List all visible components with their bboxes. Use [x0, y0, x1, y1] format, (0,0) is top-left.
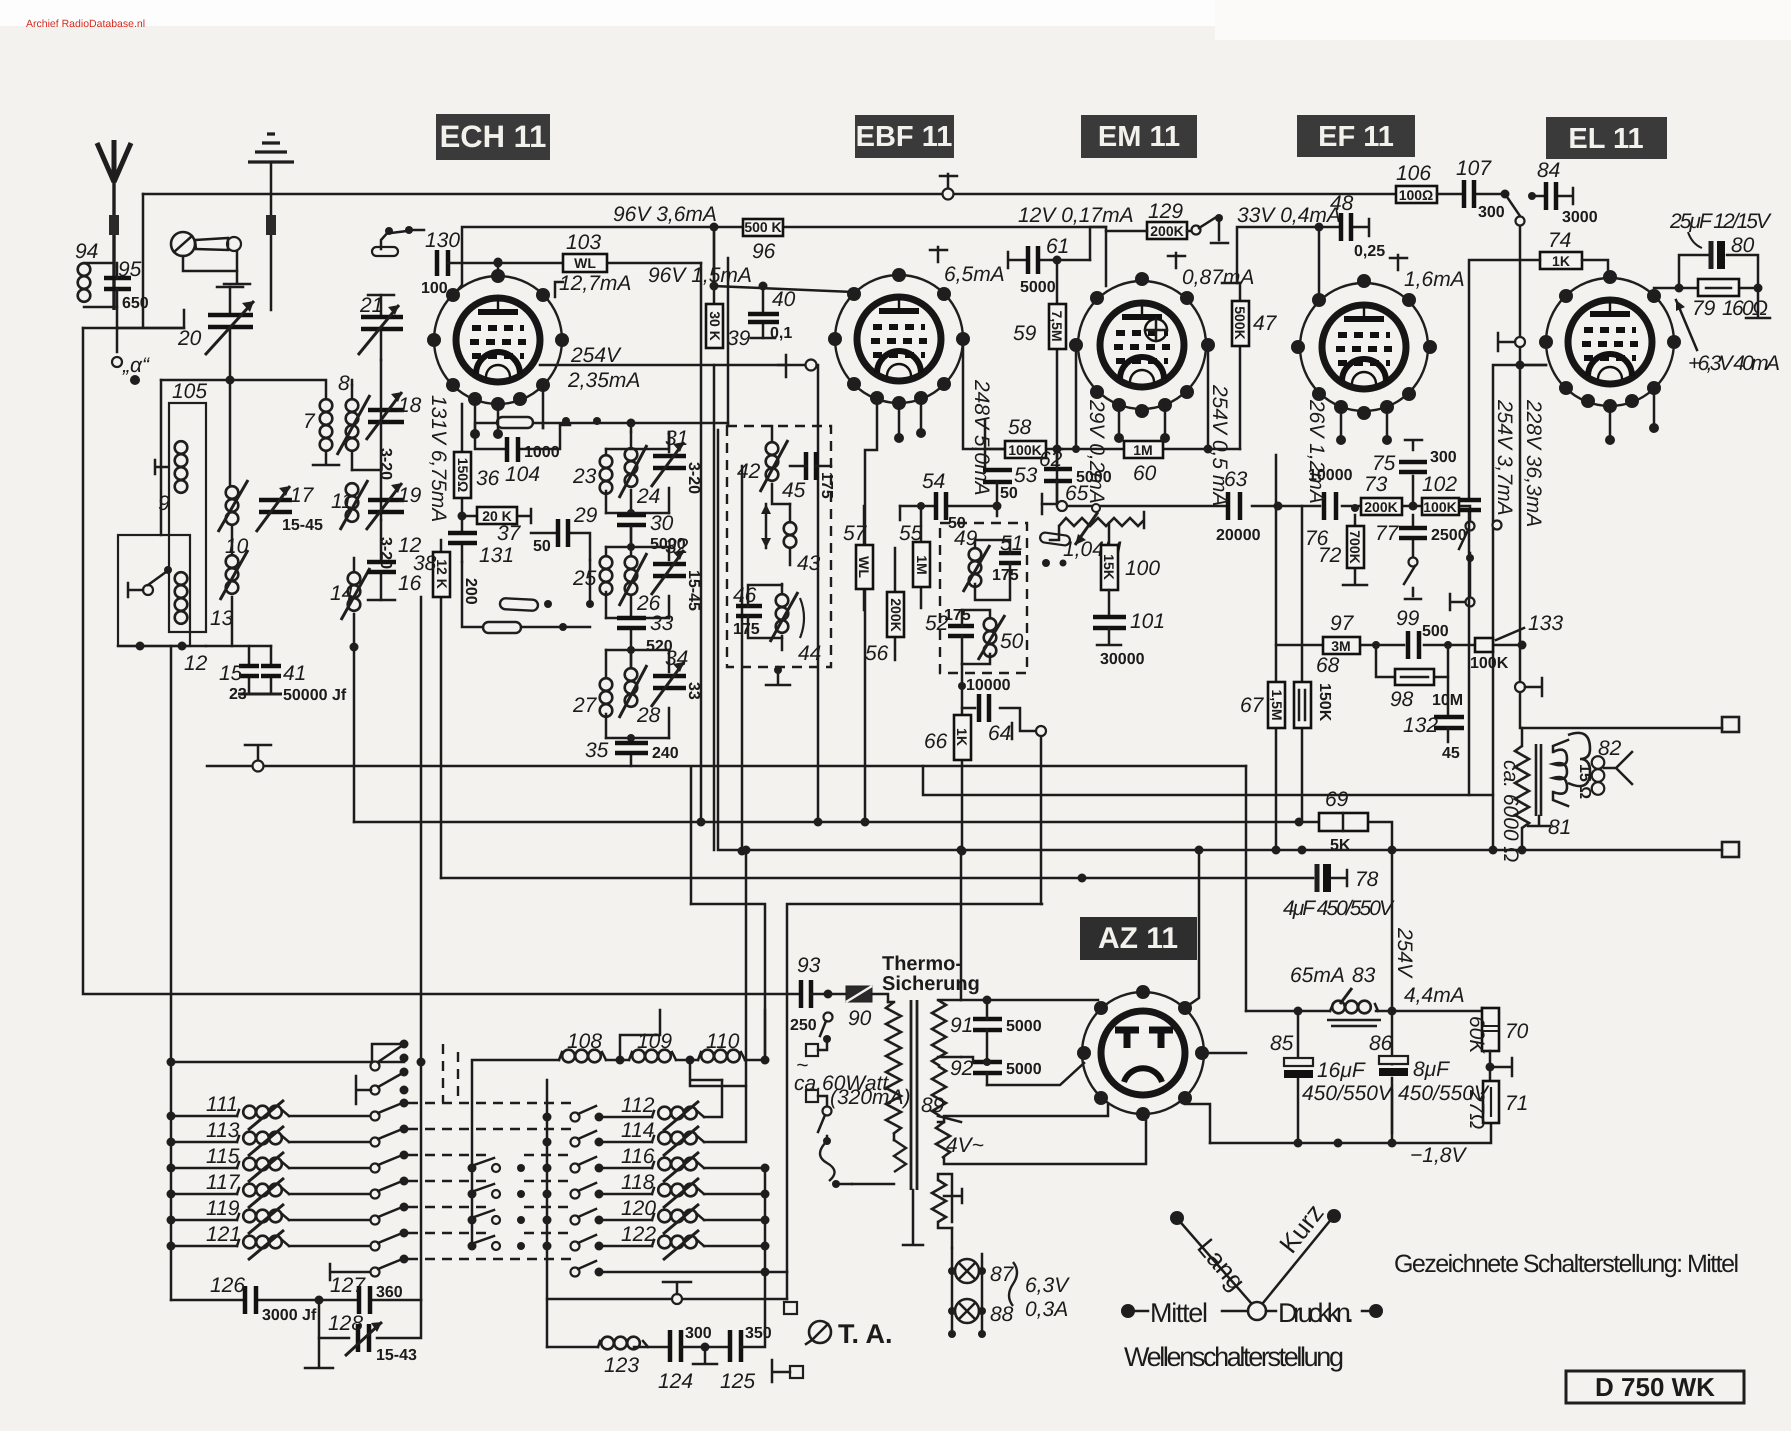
coil 8 variable — [337, 372, 370, 470]
row 119 — [171, 1219, 237, 1222]
wire bus y822 — [354, 822, 1392, 850]
svg-text:100: 100 — [1125, 557, 1160, 580]
selector box left — [118, 535, 190, 646]
resistor 73 200K — [1361, 473, 1418, 515]
lamp 88 — [955, 1299, 979, 1323]
svg-text:36: 36 — [476, 467, 500, 490]
wire vertical x1199 AZ11 anode — [1186, 850, 1199, 1007]
wire vertical x1302 150K — [1301, 506, 1304, 822]
coil 13 variable — [210, 542, 248, 646]
tube EBF11 — [828, 247, 1005, 443]
svg-text:3000: 3000 — [1562, 209, 1598, 226]
svg-text:1,5M: 1,5M — [1269, 689, 1285, 720]
svg-text:133: 133 — [1528, 612, 1563, 635]
variable cap 17 — [256, 484, 323, 534]
svg-text:175: 175 — [992, 567, 1019, 584]
svg-text:128: 128 — [328, 1312, 363, 1335]
resistor 69 5K on bus — [1319, 788, 1368, 854]
svg-text:240: 240 — [652, 745, 679, 762]
svg-text:80: 80 — [1731, 234, 1755, 257]
cap 101 — [1093, 610, 1165, 668]
svg-text:26V 1,2mA: 26V 1,2mA — [1305, 399, 1328, 504]
svg-text:129: 129 — [1148, 200, 1183, 223]
coil 50 variable — [984, 618, 997, 631]
svg-text:116: 116 — [621, 1145, 655, 1168]
cap 52 — [948, 626, 974, 636]
svg-text:66: 66 — [924, 730, 948, 753]
coil 10 — [218, 480, 249, 558]
svg-text:450/550V: 450/550V — [1398, 1082, 1490, 1105]
svg-text:500K: 500K — [1232, 306, 1248, 339]
svg-text:0,25: 0,25 — [1354, 243, 1385, 260]
variable cap 19 — [366, 483, 422, 569]
wire AF line y506 — [1062, 506, 1470, 521]
svg-text:5000: 5000 — [1020, 279, 1056, 296]
svg-text:94: 94 — [75, 240, 98, 263]
svg-text:96: 96 — [752, 240, 776, 263]
svg-text:5000: 5000 — [1006, 1018, 1042, 1035]
osc coil 26 variable — [619, 547, 661, 615]
svg-text:37: 37 — [497, 522, 522, 545]
potentiometer 65 — [1042, 482, 1144, 561]
cap 46 — [736, 606, 762, 616]
wire vertical x865 EBF g — [865, 403, 877, 822]
svg-text:114: 114 — [621, 1119, 654, 1142]
svg-text:117: 117 — [206, 1171, 241, 1194]
svg-text:12,7mA: 12,7mA — [559, 272, 631, 295]
svg-text:254V: 254V — [1393, 927, 1416, 979]
heater winding 4V~ — [936, 1105, 1146, 1164]
capacitor 95 — [104, 258, 149, 312]
wire AZ11 cathode to choke — [1206, 766, 1246, 1053]
svg-text:10000: 10000 — [966, 677, 1011, 694]
svg-text:33V 0,4mA: 33V 0,4mA — [1237, 204, 1341, 227]
wire long verticals IF buses — [713, 227, 716, 850]
label 33V 0,4mA + cap 48 — [1237, 192, 1385, 293]
coupling arrow — [765, 504, 768, 548]
caps 126/127/128 row — [171, 1274, 421, 1368]
svg-text:12 K: 12 K — [434, 559, 450, 589]
resistor 39 30K vertical — [706, 304, 751, 350]
wire 12V line — [1090, 227, 1106, 260]
svg-text:Sicherung: Sicherung — [882, 973, 980, 995]
svg-text:7,5M: 7,5M — [1049, 310, 1065, 341]
row 115 — [171, 1167, 237, 1170]
svg-text:12: 12 — [184, 652, 208, 675]
resistor 98 10M loop — [1372, 641, 1463, 715]
svg-text:700K: 700K — [1347, 530, 1363, 563]
svg-text:92: 92 — [950, 1057, 974, 1080]
svg-text:175: 175 — [818, 472, 835, 499]
svg-text:79: 79 — [1692, 297, 1716, 320]
svg-text:71: 71 — [1505, 1092, 1528, 1115]
svg-text:23: 23 — [572, 465, 597, 488]
svg-text:WL: WL — [856, 556, 872, 578]
dashed linkage verticals — [443, 1044, 458, 1103]
vert line from cap20 down — [229, 380, 232, 486]
resistor 37 20K — [458, 507, 532, 545]
ground stub below — [766, 667, 790, 685]
cap 33 — [606, 596, 674, 655]
svg-text:131V 6,75mA: 131V 6,75mA — [427, 395, 450, 522]
svg-text:113: 113 — [206, 1119, 240, 1142]
svg-text:360: 360 — [376, 1284, 403, 1301]
svg-text:30: 30 — [650, 512, 674, 535]
svg-text:160Ω: 160Ω — [1722, 297, 1768, 320]
coils 108/109/110 — [472, 1010, 770, 1086]
svg-text:118: 118 — [621, 1171, 655, 1194]
svg-text:+6,3V 40mA: +6,3V 40mA — [1688, 352, 1780, 375]
svg-text:105: 105 — [172, 380, 207, 403]
transformer 81 core — [1528, 744, 1571, 839]
svg-text:T. A.: T. A. — [838, 1319, 893, 1349]
wire left long vertical x144 — [83, 194, 184, 328]
cap 35 — [585, 734, 679, 766]
svg-text:25: 25 — [572, 567, 597, 590]
row 113 — [171, 1141, 237, 1144]
wire left bank vertical x171 — [170, 646, 173, 1300]
svg-text:„α“: „α“ — [122, 354, 150, 377]
svg-text:EF 11: EF 11 — [1318, 121, 1394, 153]
terminal on top bus — [940, 174, 957, 189]
mid switch bank — [468, 1062, 526, 1251]
mains switch — [794, 1013, 911, 1189]
cap 62 — [1039, 448, 1112, 506]
wire vertical x818 (2,35mA) — [817, 365, 820, 822]
wire AVC bus y645 — [1276, 644, 1522, 647]
osc coil 28 variable — [619, 650, 661, 727]
svg-text:124: 124 — [658, 1370, 693, 1393]
svg-text:28: 28 — [636, 704, 661, 727]
cap 76 — [1305, 467, 1353, 550]
svg-text:100: 100 — [421, 280, 448, 297]
svg-text:11: 11 — [331, 490, 353, 513]
svg-text:21: 21 — [359, 294, 383, 317]
svg-text:46: 46 — [733, 584, 757, 607]
svg-text:45: 45 — [782, 479, 806, 502]
wire top grid bus y194 — [143, 193, 1396, 196]
cap 131 — [448, 516, 514, 605]
svg-text:43: 43 — [797, 552, 821, 575]
svg-text:254V: 254V — [570, 344, 622, 367]
svg-text:96V 1,5mA: 96V 1,5mA — [648, 264, 752, 287]
svg-text:23: 23 — [229, 686, 247, 703]
svg-text:112: 112 — [621, 1094, 655, 1117]
svg-text:200K: 200K — [1150, 223, 1183, 239]
svg-text:24: 24 — [636, 485, 660, 508]
svg-text:WL: WL — [574, 255, 596, 271]
svg-text:45: 45 — [1442, 745, 1460, 762]
wire vertical x1276 EM bus — [1275, 455, 1278, 850]
wire bus y878 — [441, 877, 1313, 880]
resistor 36 150ohm vertical — [454, 404, 500, 516]
svg-text:0,87mA: 0,87mA — [1182, 266, 1254, 289]
svg-text:47: 47 — [1253, 312, 1278, 335]
resistor 72 700K vertical — [1318, 504, 1367, 585]
variable cap 21 — [358, 294, 403, 360]
resistor 60 1M — [1124, 441, 1163, 485]
resistor 68 150K vertical — [1294, 654, 1340, 728]
svg-text:9: 9 — [158, 492, 170, 515]
svg-text:121: 121 — [206, 1223, 241, 1246]
wire bus y850 — [718, 430, 1722, 850]
cap 78 electrolytic — [1283, 864, 1395, 920]
svg-text:122: 122 — [621, 1223, 656, 1246]
T.A. symbol — [806, 1319, 893, 1349]
cap 53 — [983, 464, 1038, 516]
svg-text:200K: 200K — [1364, 499, 1397, 515]
svg-text:254V 0,5 mA: 254V 0,5 mA — [1208, 384, 1231, 506]
wire EM11 anode loop — [1057, 345, 1240, 449]
svg-text:30000: 30000 — [1100, 651, 1145, 668]
wires below selector — [118, 645, 206, 648]
svg-text:15K: 15K — [1101, 554, 1117, 580]
svg-text:1M: 1M — [1133, 442, 1152, 458]
wire 500K AVC line y227 — [456, 227, 1106, 292]
ground terminal on y766 — [245, 745, 271, 761]
osc coil 24 variable — [619, 432, 660, 508]
svg-text:69: 69 — [1325, 788, 1349, 811]
wire grid top ECH — [497, 262, 500, 269]
svg-text:30 K: 30 K — [707, 311, 723, 341]
svg-text:7: 7 — [303, 410, 316, 433]
tube label EBF 11 — [855, 115, 954, 158]
svg-text:67: 67 — [1240, 694, 1265, 717]
resistor 103 WL box — [494, 231, 702, 272]
svg-text:120: 120 — [621, 1197, 656, 1220]
extra bottom row — [330, 1264, 371, 1280]
svg-text:500 K: 500 K — [744, 219, 781, 235]
svg-text:61: 61 — [1046, 235, 1069, 258]
svg-text:50: 50 — [1000, 630, 1024, 653]
svg-text:3-20: 3-20 — [377, 448, 394, 480]
tube label EF 11 — [1297, 115, 1415, 157]
cap 77 — [1375, 515, 1467, 556]
coil rows left 111-121 — [167, 1093, 409, 1280]
svg-text:73: 73 — [1364, 473, 1388, 496]
top switch cluster — [356, 1040, 409, 1105]
svg-text:103: 103 — [566, 231, 601, 254]
svg-text:100Ω: 100Ω — [1399, 187, 1434, 203]
svg-text:300: 300 — [1478, 204, 1505, 221]
coil 94 — [75, 240, 114, 307]
svg-text:50: 50 — [533, 538, 551, 555]
heater winding lamps — [903, 1174, 1070, 1338]
ground circle on 228V — [1515, 678, 1542, 696]
svg-text:110: 110 — [706, 1030, 740, 1053]
svg-text:55: 55 — [899, 522, 923, 545]
cap 104 — [475, 425, 570, 486]
svg-text:29V 0,2mA: 29V 0,2mA — [1085, 399, 1108, 504]
svg-text:40: 40 — [772, 288, 796, 311]
svg-text:15-45: 15-45 — [685, 570, 702, 611]
osc coil 27 — [572, 650, 612, 738]
wire output line y728 — [1522, 727, 1722, 730]
top feed line — [171, 1061, 404, 1064]
wire mains line y994 — [83, 328, 799, 994]
svg-text:54: 54 — [922, 470, 945, 493]
svg-text:15: 15 — [219, 662, 243, 685]
wire AZ11 heater return — [1185, 1104, 1210, 1143]
svg-text:125: 125 — [720, 1370, 755, 1393]
pickup symbol — [171, 232, 250, 284]
tube label EL 11 — [1546, 117, 1667, 159]
varcap 34 — [651, 647, 702, 738]
cap 93 — [790, 954, 833, 1034]
svg-text:101: 101 — [1130, 610, 1165, 633]
svg-text:53: 53 — [1014, 464, 1038, 487]
label 12,7mA — [555, 282, 563, 297]
resistor 129 200K + switch — [1106, 200, 1228, 243]
cap 107 — [1437, 157, 1510, 221]
svg-text:97: 97 — [1330, 612, 1355, 635]
svg-text:93: 93 — [797, 954, 821, 977]
wire vertical x1392 254V down — [1391, 850, 1394, 1133]
svg-text:1000: 1000 — [524, 444, 560, 461]
switch above cap130 — [372, 226, 424, 256]
svg-text:16: 16 — [398, 572, 422, 595]
tube EF11 — [1291, 255, 1465, 445]
choke 83 — [1246, 964, 1482, 1026]
svg-text:25μF 12/15V: 25μF 12/15V — [1669, 210, 1772, 233]
cap 54 — [900, 470, 1002, 532]
svg-text:450/550V: 450/550V — [1302, 1082, 1394, 1105]
svg-text:1M: 1M — [914, 555, 930, 574]
row 111 — [171, 1115, 237, 1118]
resistor 70 60K vertical — [1465, 1008, 1529, 1080]
resistor 102 100K — [1422, 473, 1459, 515]
wire vertical 254V x1493 — [1493, 365, 1546, 850]
resistor 55 1M vertical — [899, 502, 930, 608]
wire vertical x746 — [745, 851, 748, 1086]
coil 43 — [784, 522, 797, 535]
tube EL11 — [1539, 270, 1681, 445]
caps 91/92 — [938, 996, 1098, 1086]
earth symbol top — [248, 134, 294, 310]
svg-text:70: 70 — [1505, 1020, 1529, 1043]
svg-text:62: 62 — [1039, 448, 1063, 471]
ground + terminal row — [547, 1272, 797, 1314]
svg-text:33: 33 — [650, 612, 674, 635]
svg-text:D 750 WK: D 750 WK — [1595, 1372, 1715, 1402]
coil 11 — [331, 480, 368, 530]
svg-text:74: 74 — [1548, 229, 1571, 252]
svg-text:ECH 11: ECH 11 — [440, 119, 547, 154]
svg-text:13: 13 — [210, 607, 234, 630]
wires osc top — [543, 423, 728, 449]
osc switch slots — [462, 417, 601, 633]
wire y380 row — [161, 380, 326, 399]
cap 85 16uF — [1270, 1007, 1394, 1148]
cap 12/16 — [367, 520, 422, 600]
cap 30 — [606, 490, 686, 553]
svg-text:150K: 150K — [1316, 683, 1333, 722]
svg-text:19: 19 — [398, 484, 422, 507]
svg-text:27: 27 — [572, 694, 598, 717]
svg-text:88: 88 — [990, 1303, 1014, 1326]
coil 42 variable — [771, 426, 774, 442]
svg-text:200K: 200K — [888, 598, 904, 631]
tube label ECH 11 — [436, 114, 550, 160]
svg-text:131: 131 — [479, 544, 514, 567]
svg-text:16μF: 16μF — [1317, 1059, 1366, 1082]
svg-text:68: 68 — [1316, 654, 1340, 677]
tube label EM 11 — [1081, 115, 1197, 158]
svg-text:8μF: 8μF — [1413, 1058, 1450, 1081]
svg-text:130: 130 — [425, 229, 460, 252]
svg-text:6,5mA: 6,5mA — [944, 263, 1005, 286]
svg-text:100K: 100K — [1423, 499, 1456, 515]
svg-text:175: 175 — [733, 621, 760, 638]
resistor 58 100K — [985, 416, 1062, 504]
bottom row: coil 123, caps 124/125 — [547, 1272, 803, 1393]
svg-text:150Ω: 150Ω — [455, 458, 471, 493]
svg-text:82: 82 — [1598, 737, 1622, 760]
svg-text:89: 89 — [921, 1094, 945, 1117]
svg-text:1,6mA: 1,6mA — [1404, 268, 1465, 291]
svg-text:12V 0,17mA: 12V 0,17mA — [1018, 204, 1134, 227]
svg-text:83: 83 — [1352, 964, 1376, 987]
coil 14 variable — [330, 558, 370, 822]
cap 75 — [1372, 440, 1457, 506]
cap 63 — [1216, 468, 1261, 544]
svg-text:300: 300 — [685, 1325, 712, 1342]
wire vertical x1041 — [1040, 731, 1043, 904]
wire pickup to grid line — [117, 327, 184, 330]
svg-text:42: 42 — [737, 460, 761, 483]
svg-text:59: 59 — [1013, 322, 1037, 345]
svg-text:−1,8V: −1,8V — [1410, 1144, 1467, 1167]
svg-text:15 Ω: 15 Ω — [1576, 764, 1593, 799]
lamp 87 — [955, 1259, 979, 1283]
cap 40 — [748, 286, 796, 342]
svg-text:14: 14 — [330, 582, 353, 605]
switch under 77 — [1404, 558, 1421, 600]
svg-text:111: 111 — [206, 1093, 238, 1116]
resistor 56 200K vertical — [865, 548, 904, 665]
capacitor C130 — [421, 229, 498, 297]
svg-text:107: 107 — [1456, 157, 1492, 180]
tube EM11 (magic eye) — [1069, 253, 1254, 443]
svg-text:50000 Jf: 50000 Jf — [283, 687, 347, 704]
resistor 96 500K box — [743, 219, 783, 263]
svg-text:87: 87 — [990, 1263, 1015, 1286]
svg-text:20: 20 — [177, 327, 202, 350]
svg-text:58: 58 — [1008, 416, 1032, 439]
svg-text:57: 57 — [843, 522, 868, 545]
node a contact — [112, 354, 150, 385]
svg-text:200: 200 — [462, 578, 479, 605]
variable cap 22 — [177, 287, 254, 380]
osc coil 23 — [572, 449, 612, 513]
resistor 133 100K small — [1470, 612, 1563, 672]
svg-text:106: 106 — [1396, 162, 1431, 185]
svg-text:248V 5,0mA: 248V 5,0mA — [970, 379, 993, 496]
cap 80 electrolytic + res 79 — [1654, 210, 1772, 320]
row 121 — [171, 1245, 237, 1248]
coil 49 — [969, 548, 982, 561]
svg-text:EL 11: EL 11 — [1568, 123, 1643, 155]
resistor 57 WL vertical — [843, 506, 873, 610]
wire 96V 1,5mA y286 — [714, 227, 852, 292]
svg-text:85: 85 — [1270, 1032, 1294, 1055]
svg-text:48: 48 — [1330, 192, 1354, 215]
svg-text:72: 72 — [1318, 544, 1342, 567]
svg-text:35: 35 — [585, 739, 609, 762]
svg-text:15-45: 15-45 — [282, 517, 323, 534]
svg-text:65mA: 65mA — [1290, 964, 1345, 987]
svg-text:109: 109 — [637, 1030, 672, 1053]
